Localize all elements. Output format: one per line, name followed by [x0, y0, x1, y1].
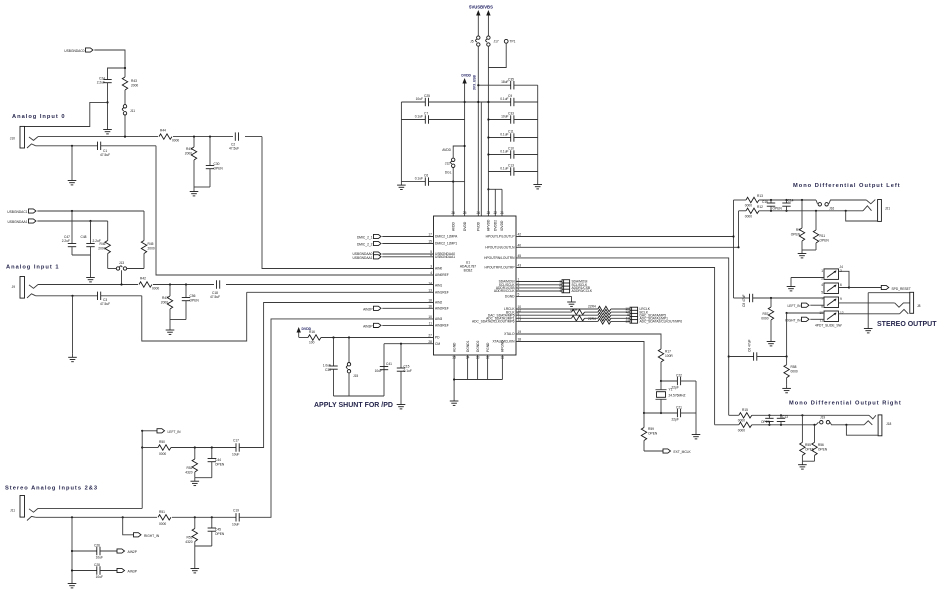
capacitor C48 2.2uF: [81, 221, 101, 255]
svg-text:R50: R50: [159, 440, 165, 444]
capacitor C3 47.5uF on ring1: [36, 292, 142, 306]
capacitor C28 10uF: [71, 563, 117, 579]
resistor R12 0000: [739, 205, 864, 218]
resistor R11 OPEN: [813, 210, 829, 250]
svg-text:23: 23: [487, 211, 491, 215]
svg-text:C16: C16: [762, 200, 768, 204]
svg-text:DVDD: DVDD: [463, 221, 467, 231]
capacitor C6b 47uF: [728, 340, 787, 361]
wire bias1 top: [37, 210, 144, 241]
svg-text:1.0uF: 1.0uF: [323, 364, 331, 368]
svg-text:HPOUTRP/LOUTRP: HPOUTRP/LOUTRP: [485, 266, 515, 270]
wire tap to row4: [786, 313, 788, 357]
U1 right pin labels: [472, 233, 521, 344]
wire left cap rail: [400, 102, 402, 182]
ground R58: [782, 385, 791, 393]
resistor R56 OPEN: [812, 424, 828, 462]
ground left cap rail: [397, 182, 406, 190]
net flag AIN3P in: [363, 323, 433, 328]
audio jack J18 mono right out: [845, 415, 891, 436]
svg-text:OPEN: OPEN: [818, 448, 828, 452]
svg-text:DMIC2_12MP1: DMIC2_12MP1: [435, 242, 457, 246]
wire switch gnd: [791, 278, 824, 284]
power arrow DVDD2: [297, 327, 312, 338]
ground mono left: [798, 250, 807, 258]
net label 3V3_USB: [473, 74, 477, 90]
power arrow 5VUSB left: [476, 10, 480, 36]
svg-text:AIN2P: AIN2P: [128, 550, 137, 554]
wire sleeve gnd stereo: [864, 293, 910, 333]
svg-text:LEFT_IN: LEFT_IN: [787, 304, 801, 308]
svg-text:USBGNDAA1: USBGNDAA1: [435, 255, 455, 259]
jumper J11: [122, 105, 135, 137]
resistor R55 OPEN: [800, 414, 815, 461]
svg-text:J9: J9: [12, 285, 16, 289]
svg-text:AIN2: AIN2: [435, 301, 442, 305]
wire DVDD vertical: [464, 83, 466, 216]
capacitor C41 10uF: [375, 362, 393, 373]
svg-text:SPD_RESET: SPD_RESET: [892, 287, 911, 291]
svg-text:4320: 4320: [185, 471, 192, 475]
U1 top pin labels: [451, 211, 504, 231]
resistor R59 OPEN: [641, 413, 658, 451]
svg-text:CM: CM: [435, 342, 440, 346]
svg-text:C8 47uF: C8 47uF: [742, 295, 746, 307]
resistor R52 4320 pulldown: [185, 446, 197, 477]
svg-text:C21: C21: [676, 406, 682, 410]
power arrow DVDD: [461, 74, 471, 84]
capacitor C11 0.1uF bypass: [488, 130, 537, 142]
audio jack J10 Analog Input 0: [10, 126, 38, 148]
wire USBGNDAC0 to bias: [94, 50, 125, 77]
svg-text:LEFT_IN: LEFT_IN: [168, 430, 182, 434]
ground stereo input sleeve: [68, 580, 77, 588]
resistor R15 0000: [729, 408, 869, 422]
svg-text:APPLY SHUNT FOR /PD: APPLY SHUNT FOR /PD: [314, 402, 393, 409]
wire monoR top out: [0, 0, 1, 1]
capacitor C12 OPEN monoR: [761, 414, 774, 426]
svg-text:HPOUTLN/LOUTLN: HPOUTLN/LOUTLN: [485, 246, 515, 250]
wire HPOUTRN route: [516, 258, 729, 415]
svg-text:3V3_USB: 3V3_USB: [473, 74, 477, 90]
svg-text:C28: C28: [94, 563, 100, 567]
jumper J5: [470, 36, 480, 46]
resistor R43 2000: [122, 77, 138, 105]
svg-text:21: 21: [500, 211, 504, 215]
net flag SPD_RESET: [848, 285, 911, 290]
svg-text:C44: C44: [215, 458, 221, 462]
svg-text:0000: 0000: [745, 214, 752, 218]
net flag RIGHT_IN dest: [785, 317, 824, 322]
capacitor C18 47.5uF: [210, 278, 226, 299]
resistor R41 2000 to ground: [185, 136, 197, 189]
U1 left pin labels: [428, 233, 458, 346]
svg-text:HPOUTLP/LOUTLP: HPOUTLP/LOUTLP: [486, 235, 515, 239]
wire R9 R11 join: [802, 249, 816, 251]
svg-text:AVDD: AVDD: [442, 148, 451, 152]
svg-text:C14: C14: [788, 199, 794, 203]
svg-text:OPEN: OPEN: [791, 233, 801, 237]
audio jack J9 Analog Input 1: [12, 277, 38, 299]
svg-text:J17: J17: [494, 40, 499, 44]
wire R47 C56 join: [166, 320, 186, 335]
svg-text:HPOUTRN/LOUTRN: HPOUTRN/LOUTRN: [484, 256, 515, 260]
svg-text:PGND: PGND: [486, 342, 490, 352]
capacitor C47 2.2uF: [62, 211, 77, 255]
audio jack J8 stereo out: [895, 292, 921, 314]
net flag USBGNDAA1: [7, 219, 36, 224]
svg-text:1: 1: [821, 269, 823, 273]
svg-text:5VUSB/VBS: 5VUSB/VBS: [469, 5, 493, 10]
resistor R9 OPEN: [791, 199, 805, 250]
svg-text:J8: J8: [917, 304, 921, 308]
svg-text:AIN0REF: AIN0REF: [435, 273, 449, 277]
svg-text:R59: R59: [648, 427, 654, 431]
svg-text:0000: 0000: [159, 522, 166, 526]
svg-text:0000: 0000: [745, 204, 752, 208]
wire stereo tip to left row: [38, 507, 142, 509]
svg-text:DGL: DGL: [445, 171, 452, 175]
svg-text:C25: C25: [424, 94, 430, 98]
svg-text:ADDR0/CCLK: ADDR0/CCLK: [572, 289, 593, 293]
capacitor C2 47.5uF: [229, 130, 245, 151]
schematic title Stereo Analog Inputs 2&3: [5, 486, 98, 492]
svg-text:C13: C13: [508, 164, 514, 168]
svg-text:R47: R47: [162, 296, 168, 300]
svg-text:47.5uF: 47.5uF: [229, 147, 239, 151]
jumper J15: [346, 336, 358, 396]
capacitor C56 OPEN: [182, 283, 200, 319]
svg-text:22R4: 22R4: [588, 317, 596, 321]
test point TP1: [504, 39, 515, 43]
svg-text:RIGHT_IN: RIGHT_IN: [144, 534, 160, 538]
svg-text:4: 4: [559, 289, 561, 293]
ground mono right: [798, 461, 807, 469]
ground C24: [103, 101, 112, 134]
connector J6 serial header with series resistors: [516, 305, 682, 325]
wire sleeve vertical: [71, 517, 73, 580]
resistor R44 0000: [158, 129, 179, 143]
svg-text:DGND1: DGND1: [466, 340, 470, 352]
svg-text:C45: C45: [215, 528, 221, 532]
svg-text:R12: R12: [757, 205, 763, 209]
svg-text:J12: J12: [445, 162, 450, 166]
svg-text:OPEN: OPEN: [215, 532, 225, 536]
jumper J13: [108, 261, 144, 270]
wire bias1 bottom: [37, 220, 107, 241]
resistor R16 100: [299, 330, 434, 345]
jumper J19 monoR: [816, 416, 864, 425]
crystal Y1 24.576MHZ: [656, 380, 686, 413]
resistor R46 2000: [98, 241, 110, 269]
svg-text:47.5uF: 47.5uF: [100, 302, 110, 306]
svg-text:10uF: 10uF: [96, 556, 103, 560]
jumper J17: [486, 36, 499, 46]
capacitor C7 0.1uF: [401, 112, 464, 124]
node 5VUSB/VBS power net label: [469, 5, 493, 10]
net flag AIN3P out: [117, 568, 137, 573]
svg-text:OPEN: OPEN: [820, 239, 830, 243]
svg-text:C30: C30: [214, 162, 220, 166]
svg-text:Mono Differential Output Right: Mono Differential Output Right: [789, 401, 902, 407]
svg-text:AIN3P: AIN3P: [363, 325, 372, 329]
svg-text:USBGNDAA1: USBGNDAA1: [352, 256, 372, 260]
resistor R14 0000: [715, 422, 816, 432]
svg-text:AIN0: AIN0: [435, 267, 442, 271]
resistor R47 2000 to ground: [161, 283, 173, 319]
svg-text:2000: 2000: [161, 301, 168, 305]
ground input1 ring: [68, 295, 77, 362]
wire CM row: [384, 344, 434, 396]
schematic title Mono Differential Output Left: [793, 183, 901, 189]
capacitor C1 47.5uF on ring: [36, 142, 156, 157]
wire HPOUTRP route: [516, 268, 715, 425]
wire AGND pin down: [450, 355, 459, 405]
wire AIN3 route: [239, 319, 433, 517]
net flag AIN2P out: [117, 549, 137, 554]
svg-text:24: 24: [476, 211, 480, 215]
svg-text:USBGNDAA1: USBGNDAA1: [7, 220, 27, 224]
svg-text:EXT_MCLK: EXT_MCLK: [674, 450, 692, 454]
audio jack J21 mono left out: [845, 200, 891, 222]
svg-text:5: 5: [821, 291, 823, 295]
connector J14 control header: [516, 280, 593, 294]
resistor R17 100R: [658, 349, 673, 381]
net flag USBGNDAC0: [64, 48, 93, 53]
net flag LEFT_IN source: [141, 429, 181, 509]
ground C15b: [397, 401, 406, 409]
wire xtal caps join: [695, 381, 697, 431]
svg-text:R41: R41: [186, 147, 192, 151]
wire DGND bus: [453, 355, 502, 381]
capacitor C24 2.2uF: [97, 68, 125, 126]
svg-text:2.2uF: 2.2uF: [97, 81, 105, 85]
capacitor C44 OPEN left: [208, 446, 225, 477]
svg-text:ADDR0/CCLK: ADDR0/CCLK: [494, 289, 515, 293]
svg-text:R55: R55: [805, 443, 811, 447]
svg-text:C35: C35: [508, 77, 514, 81]
svg-text:PVDD: PVDD: [477, 221, 481, 231]
wire 3V3_USB vertical J5 to IC: [478, 46, 481, 216]
svg-text:0000: 0000: [738, 428, 745, 432]
svg-text:AIN2REF: AIN2REF: [435, 307, 449, 311]
svg-text:USBGNDAC1: USBGNDAC1: [7, 210, 27, 214]
ground R57: [767, 338, 776, 346]
ground R41: [190, 187, 210, 196]
capacitor C14 monoL: [782, 199, 793, 212]
svg-text:ADC_SDATA2/CLKOUT/MP6: ADC_SDATA2/CLKOUT/MP6: [472, 320, 515, 324]
wire sw row1 loop: [839, 271, 850, 287]
switch J4 4PDT slide: [815, 265, 844, 328]
svg-text:C48: C48: [81, 235, 87, 239]
svg-text:0000: 0000: [152, 287, 159, 291]
svg-text:C36: C36: [325, 368, 331, 372]
capacitor C13 0.1uF bypass: [488, 164, 537, 176]
resistor R51 0000: [157, 510, 172, 526]
svg-text:2000: 2000: [148, 247, 155, 251]
svg-text:R42: R42: [140, 277, 146, 281]
svg-text:R56: R56: [818, 443, 824, 447]
svg-text:C22: C22: [676, 374, 682, 378]
svg-text:C33: C33: [508, 112, 514, 116]
junction input0 bias: [124, 67, 126, 69]
svg-text:C19: C19: [233, 508, 239, 512]
svg-text:26: 26: [451, 211, 455, 215]
capacitor C35 18uF bypass: [478, 77, 537, 89]
svg-text:C56: C56: [190, 294, 196, 298]
wire DGND to ground: [516, 296, 576, 306]
net flag AIN2P in: [363, 306, 433, 311]
svg-text:DGND2: DGND2: [476, 340, 480, 352]
ground input0 ring: [68, 145, 77, 185]
capacitor C6 0.1uF: [401, 174, 454, 186]
resistor R57 0000: [761, 297, 773, 338]
wire XTALO route: [516, 334, 661, 349]
svg-text:C6 47uF: C6 47uF: [748, 340, 752, 352]
svg-text:2000: 2000: [98, 247, 105, 251]
net flag DMIC_2_1 A: [357, 234, 434, 239]
capacitor C10 0.1uF bypass: [488, 147, 537, 159]
wire J13 tap to input1 tip: [121, 270, 123, 284]
net flag LEFT_IN dest: [787, 303, 824, 308]
net flag USBGNDAC1: [7, 209, 36, 214]
svg-text:AIN1: AIN1: [435, 283, 442, 287]
schematic title APPLY SHUNT FOR /PD: [314, 402, 393, 409]
capacitor C45 OPEN right: [208, 516, 225, 546]
svg-text:DGND: DGND: [505, 295, 515, 299]
svg-text:J10: J10: [10, 137, 15, 141]
svg-text:IOVDD: IOVDD: [500, 220, 504, 231]
capacitor C9 0.1uF bypass: [465, 94, 538, 106]
svg-text:OPEN: OPEN: [761, 420, 771, 424]
svg-text:2000: 2000: [185, 152, 192, 156]
wire AVDD stub to IC pin: [452, 182, 454, 216]
svg-text:Stereo Analog Inputs 2&3: Stereo Analog Inputs 2&3: [5, 486, 98, 492]
svg-text:0.1uF: 0.1uF: [404, 369, 412, 373]
svg-text:R17: R17: [665, 350, 671, 354]
svg-text:DVDD2: DVDD2: [494, 220, 498, 231]
wire input0 step: [25, 102, 108, 126]
svg-text:100: 100: [309, 341, 315, 345]
svg-text:C13: C13: [782, 415, 788, 419]
schematic title Analog Input 1: [6, 265, 60, 271]
svg-text:R46: R46: [100, 242, 106, 246]
wire AIN1REF route: [142, 292, 434, 341]
svg-text:R9: R9: [796, 228, 800, 232]
capacitor C19 10uF: [232, 508, 239, 526]
svg-text:Mono Differential Output Left: Mono Differential Output Left: [793, 183, 901, 189]
svg-text:C6: C6: [424, 174, 428, 178]
wire mono left vert P: [732, 200, 734, 298]
svg-text:4: 4: [821, 283, 823, 287]
capacitor C13b monoR: [777, 414, 788, 426]
svg-text:AIN2P: AIN2P: [363, 307, 372, 311]
audio jack J11 stereo input: [10, 496, 38, 521]
wire mono left vert N: [737, 211, 739, 248]
svg-text:OPEN: OPEN: [190, 299, 200, 303]
svg-text:0000: 0000: [172, 139, 179, 143]
wire input0 tip: [38, 136, 262, 138]
svg-text:J18: J18: [886, 422, 891, 426]
svg-text:C17: C17: [233, 439, 239, 443]
svg-text:0.1uF: 0.1uF: [415, 176, 423, 180]
svg-text:10uF: 10uF: [232, 522, 239, 526]
svg-text:10uF: 10uF: [232, 453, 239, 457]
resistor R45 2000: [141, 241, 155, 269]
svg-text:100R: 100R: [665, 354, 673, 358]
svg-text:22: 22: [493, 211, 497, 215]
svg-text:DVDD: DVDD: [461, 74, 471, 78]
wire R55 R56 join: [802, 460, 814, 462]
wire HPOUTLP route: [516, 236, 734, 238]
svg-text:DMIC_2_2: DMIC_2_2: [357, 242, 373, 246]
schematic title Analog Input 0: [12, 114, 66, 120]
svg-text:10uF: 10uF: [416, 97, 423, 101]
svg-text:R53: R53: [187, 536, 193, 540]
svg-text:J5: J5: [470, 40, 474, 44]
wire input0 ring to AIN0REF: [156, 146, 434, 275]
capacitor C30 OPEN: [206, 136, 224, 188]
capacitor C26 10uF: [71, 544, 117, 560]
svg-text:C26: C26: [94, 544, 100, 548]
resistor R58 0000: [784, 355, 798, 385]
svg-text:R52: R52: [187, 466, 193, 470]
wire pulldown join left: [191, 478, 212, 486]
wire PD rail: [334, 395, 385, 397]
capacitor C25 10uF: [401, 94, 464, 106]
wire XTALI route: [516, 342, 644, 414]
wire VBS vertical J17 to bus: [487, 46, 489, 216]
resistor R53 4320 pulldown: [185, 516, 197, 546]
wire HPOUTLN route: [516, 246, 739, 248]
svg-text:4PDT_SLIDE_SW: 4PDT_SLIDE_SW: [815, 324, 842, 328]
svg-text:OPEN: OPEN: [215, 463, 225, 467]
svg-text:J19: J19: [820, 416, 825, 420]
net flag DMIC_2_2 B: [357, 241, 434, 246]
net flag EXT_MCLK: [644, 449, 691, 454]
svg-text:AIN3REF: AIN3REF: [435, 324, 449, 328]
resistor R13 0000: [734, 194, 817, 208]
U1 bottom pin labels: [452, 340, 504, 360]
svg-text:AIN3: AIN3: [435, 317, 442, 321]
svg-text:10uF: 10uF: [96, 575, 103, 579]
net flag USBGNDAA pair: [352, 252, 433, 260]
capacitor C21 22pF: [643, 406, 696, 422]
svg-text:R11: R11: [820, 234, 826, 238]
resistor R50 0000: [158, 440, 236, 456]
svg-text:J21: J21: [885, 207, 890, 211]
svg-text:USBGNDAC0: USBGNDAC0: [64, 49, 84, 53]
svg-text:OPEN: OPEN: [648, 432, 658, 436]
svg-text:R45: R45: [148, 242, 154, 246]
svg-text:6: 6: [840, 283, 842, 287]
wire pulldown join right: [191, 546, 212, 573]
ground bias1: [86, 274, 95, 282]
resistor R42 0000: [138, 277, 159, 291]
capacitor C36 1.0uF: [323, 336, 338, 396]
svg-text:22R4: 22R4: [588, 305, 596, 309]
svg-text:12: 12: [840, 311, 844, 315]
svg-text:RIGHT_IN: RIGHT_IN: [785, 318, 801, 322]
svg-text:Analog Input 0: Analog Input 0: [12, 114, 66, 120]
svg-text:R15: R15: [742, 408, 748, 412]
svg-text:R44: R44: [160, 129, 166, 133]
svg-text:J11: J11: [130, 109, 135, 113]
svg-text:22pF: 22pF: [672, 386, 679, 390]
svg-text:R13: R13: [757, 194, 763, 198]
svg-text:HPVDD: HPVDD: [487, 219, 491, 231]
capacitor C15b 0.1uF: [397, 343, 412, 401]
